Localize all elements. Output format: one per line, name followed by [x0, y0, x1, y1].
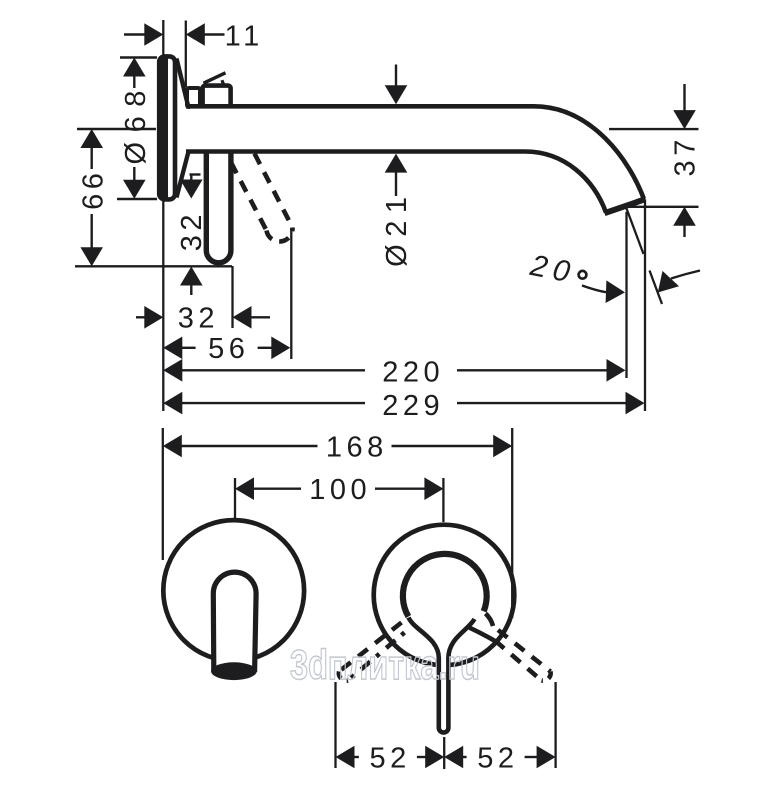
dim 11 left stem+arrow: [124, 33, 146, 35]
dim 37 outlet ref line: [624, 206, 699, 208]
escutcheon taper bottom edge: [177, 152, 189, 198]
svg-text:66: 66: [77, 169, 109, 210]
dim 168: [180, 445, 318, 447]
20 deg tilted line lower segment: [650, 271, 663, 305]
spout tip cut face: [605, 199, 646, 213]
extension line right circle right edge: [511, 428, 513, 618]
dashed lever fillet arc right (solid): [486, 614, 494, 627]
svg-text:37: 37: [669, 135, 701, 176]
svg-text:Ø68: Ø68: [120, 81, 152, 164]
dim O68 bottom tick: [117, 198, 157, 200]
wall line upper segment: [162, 20, 164, 57]
handle lever swung right (dashed): [498, 630, 551, 672]
temperature lever swung (dashed) end cap: [267, 228, 293, 242]
wall line lower segment: [162, 199, 164, 411]
extension line spout tip: [644, 199, 646, 411]
dim 66 top tick (spout centerline): [77, 128, 156, 130]
escutcheon wall plate (side view): [159, 56, 175, 199]
set screw mark: [204, 73, 226, 83]
dim 32 vertical bottom arrow+stem: [180, 267, 203, 286]
extension line left circle center: [234, 478, 236, 519]
dim 32 horizontal left arrow: [136, 316, 146, 318]
left escutcheon circle: [163, 520, 304, 661]
extension line right dashed lever end: [554, 682, 556, 768]
angle 20deg left leader+arrow: [582, 286, 606, 293]
dim O21 top stem+arrow: [395, 65, 397, 87]
temperature lever swung (dashed) left edge: [231, 163, 267, 231]
handle lever stem (front): [409, 618, 475, 733]
dim O68 top tick: [120, 56, 157, 58]
svg-text:229: 229: [382, 390, 444, 422]
temperature lever swung (dashed) right edge: [255, 154, 293, 228]
dim 56: [180, 347, 195, 349]
svg-text:100: 100: [309, 474, 371, 506]
spout tube silhouette: [190, 106, 644, 212]
extension line left circle left edge: [162, 428, 164, 560]
handle knob circle (stroke gap at stem junction): [403, 554, 487, 617]
dim O68 arrows+line: [123, 58, 146, 77]
dim 52 left: [353, 756, 359, 758]
extension line left dashed lever end: [334, 682, 336, 768]
20 deg tilted line upper segment: [627, 209, 644, 255]
svg-text:32: 32: [176, 210, 208, 251]
extension line lever right edge: [231, 266, 233, 328]
svg-text:52: 52: [369, 742, 410, 774]
svg-text:52: 52: [477, 742, 518, 774]
dim 32 horizontal right arrow+stem: [233, 306, 252, 329]
escutcheon taper top edge: [177, 59, 189, 108]
angle 20deg right leader+arrow: [671, 271, 700, 279]
dim 100: [252, 488, 301, 490]
spout outlet ellipse: [211, 662, 257, 680]
dim 229: [180, 402, 365, 404]
extension line aerator center: [625, 212, 627, 378]
spout tube bottom edge: [186, 152, 606, 213]
svg-text:220: 220: [382, 357, 444, 389]
handle lever swung left (dashed): [339, 623, 402, 672]
valve body block large: [203, 86, 231, 108]
valve body block small: [187, 88, 200, 107]
svg-text:11: 11: [225, 20, 264, 52]
dim O21 bottom arrow+stem: [385, 154, 408, 173]
dim 37 lower arrow+stem: [673, 207, 696, 226]
svg-text:32: 32: [178, 302, 219, 334]
extension line handle center: [443, 737, 445, 769]
temperature lever (solid): [206, 152, 231, 263]
dim 66 bottom tick (lever end line): [75, 265, 232, 267]
dim 37 centerline ref line: [609, 128, 699, 130]
svg-text:3dплитка.ru: 3dплитка.ru: [290, 641, 480, 688]
dim 37 upper stem+arrow: [683, 84, 685, 112]
dim 66 arrows+line: [80, 129, 103, 148]
extension line escutcheon front face: [185, 21, 187, 88]
dim 220: [180, 369, 365, 371]
spout front view body: [213, 572, 256, 672]
extension line dashed lever end: [290, 228, 292, 359]
dim 32 vertical tick+top arrow: [190, 173, 201, 175]
svg-text:Ø21: Ø21: [381, 190, 413, 267]
spout tube top edge: [186, 106, 644, 199]
dim 11 right arrow+stem: [186, 23, 205, 46]
right lever lower edge solid start: [470, 628, 496, 641]
svg-text:168: 168: [326, 431, 388, 463]
dim 52 right: [461, 756, 466, 758]
svg-text:56: 56: [208, 333, 249, 365]
extension line right circle center: [442, 478, 444, 522]
right escutcheon circle: [374, 525, 515, 666]
